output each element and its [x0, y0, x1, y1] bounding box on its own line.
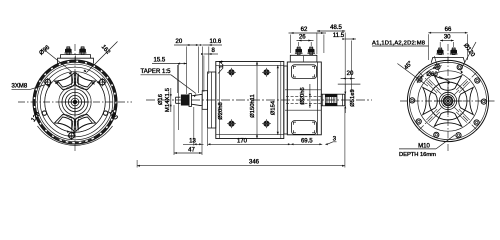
- left view top slot ribs: [72, 74, 79, 86]
- dim 346: [137, 165, 345, 167]
- svg-text:Ø16: Ø16: [158, 94, 164, 105]
- right view brush circle dia60: [429, 82, 467, 120]
- svg-text:TAPER 1:5: TAPER 1:5: [141, 69, 172, 75]
- dim 11.5: [345, 38, 356, 40]
- svg-text:26: 26: [299, 35, 306, 41]
- side view stator body: [216, 62, 284, 139]
- side view front housing plate: [208, 72, 216, 128]
- dim 62: [289, 32, 327, 34]
- svg-text:170: 170: [237, 139, 248, 145]
- 45deg radial extension lines: [434, 56, 439, 72]
- side view box tick: [303, 56, 305, 62]
- housing inner wall line: [317, 62, 319, 135]
- side view shaft washer: [189, 94, 191, 107]
- dim 48.5: [317, 30, 345, 32]
- side view body center line / dia150h11 dim: [256, 62, 258, 139]
- dia51e9 dim line: [344, 84, 346, 113]
- side view stub end line: [342, 94, 344, 106]
- dia20h6 dim line: [309, 84, 311, 108]
- side view rear housing window top: [292, 65, 317, 79]
- window corner tabs: [293, 66, 314, 133]
- side view rear terminal box: [290, 55, 317, 62]
- svg-text:Ø150h11: Ø150h11: [250, 94, 256, 117]
- dia16 dim line: [170, 88, 172, 112]
- dim 69.5: [291, 143, 323, 145]
- side view rear shaft stub: [321, 94, 344, 106]
- left view vent cutout lower-right: [76, 115, 96, 132]
- top-left dim extension lines: [177, 47, 209, 95]
- right view outer circle: [407, 60, 488, 141]
- left view terminal box base: [58, 58, 94, 63]
- left view wing tail marks: [55, 81, 59, 84]
- dim 26: [297, 40, 314, 42]
- 45deg arc: [417, 66, 442, 83]
- left view rim inner circle: [35, 62, 114, 141]
- right view spoke arm inner lines: [426, 79, 469, 122]
- left view vent cutout upper-left: [55, 73, 75, 90]
- svg-text:1.4: 1.4: [219, 60, 225, 69]
- side view terminal stud B: [309, 46, 313, 48]
- left view outer housing circle: [33, 60, 117, 144]
- dim 20 rear: [341, 78, 355, 80]
- dim 66 right view: [428, 32, 467, 34]
- left view vent cutout lower-left: [55, 115, 75, 132]
- right view rim circle: [409, 62, 486, 139]
- svg-text:Ø60: Ø60: [426, 72, 438, 78]
- left view M8 hole bottom: [69, 133, 75, 139]
- side view tie bolt bottom-right: [263, 121, 269, 127]
- side view shaft nut: [181, 95, 189, 105]
- svg-text:69.5: 69.5: [301, 139, 313, 145]
- right view plate tick: [447, 57, 449, 62]
- left view vent boundary circles: [45, 72, 106, 133]
- left view bottom slot ribs: [72, 119, 79, 131]
- bottom extension lines: [137, 105, 345, 168]
- svg-text:3XM8: 3XM8: [12, 84, 28, 90]
- side view bore step lines: [285, 90, 321, 110]
- dim 30 right view: [440, 40, 454, 42]
- svg-text:11.5: 11.5: [333, 33, 345, 39]
- svg-text:66: 66: [445, 27, 452, 33]
- left view hub cross: [61, 101, 89, 103]
- svg-text:20: 20: [347, 71, 354, 77]
- left view hub circles: [62, 89, 88, 115]
- svg-text:62: 62: [301, 27, 308, 33]
- left view 120deg dimension arc left: [45, 84, 72, 132]
- side view shaft thread stub: [176, 97, 181, 103]
- side view rear flange band: [284, 66, 288, 134]
- side view tie bolt bottom-left: [228, 121, 234, 127]
- left view flange arc: [38, 126, 113, 145]
- left view bolt ring circles: [37, 64, 113, 140]
- rear horizontal ref line: [338, 83, 361, 85]
- side view tie bolt top-right: [263, 69, 269, 75]
- svg-text:20: 20: [176, 39, 183, 45]
- svg-text:346: 346: [249, 160, 260, 166]
- svg-text:DEPTH 16mm: DEPTH 16mm: [399, 152, 436, 158]
- svg-text:48.5: 48.5: [330, 25, 342, 31]
- svg-text:M14X1.5: M14X1.5: [165, 88, 171, 112]
- left view 162 leader: [87, 42, 118, 73]
- left view vent cutout upper-right: [76, 73, 96, 90]
- left view arc arrowhead: [72, 131, 75, 133]
- side view tie bolt top-left: [228, 69, 234, 75]
- right view hub circles: [439, 92, 456, 109]
- left view terminal stud left: [66, 46, 70, 48]
- left view box center tick: [75, 56, 77, 63]
- dim 10.6 top: [202, 44, 222, 46]
- left view shaft center dot: [73, 100, 77, 104]
- svg-text:Ø154: Ø154: [271, 100, 277, 115]
- side view rear housing window bottom: [292, 121, 317, 135]
- dim 8: [204, 53, 218, 55]
- left view terminal stud right: [81, 46, 85, 48]
- side view body inner lines: [219, 62, 221, 139]
- side view stub collar lines: [322, 94, 324, 106]
- svg-text:Ø51e9: Ø51e9: [350, 89, 356, 106]
- rear top extension lines: [317, 33, 351, 93]
- right view spoke boundary circle: [418, 71, 478, 131]
- dim 3: [327, 142, 337, 145]
- side view hidden bore lines: [286, 97, 321, 104]
- dia16 extension line: [178, 63, 180, 130]
- svg-text:Ø20h8: Ø20h8: [218, 102, 224, 119]
- left view 120deg dimension arc right: [72, 84, 105, 132]
- side view stub spline section: [325, 94, 337, 97]
- left view arc arrowhead: [97, 81, 100, 84]
- right view stud right: [452, 47, 456, 49]
- left view 3XM8 leader: [12, 88, 31, 90]
- right view stud left: [438, 47, 442, 49]
- left view dia96 leader: [44, 50, 72, 73]
- dim 47: [174, 152, 202, 154]
- right view hub cross: [434, 100, 462, 102]
- left view small hole lower-right: [103, 111, 107, 115]
- left view terminal box top: [61, 55, 91, 59]
- front plate inner line: [211, 72, 213, 128]
- right view centerlines: [400, 44, 496, 153]
- left view arc arrowhead: [48, 84, 51, 87]
- svg-text:A1,1D1,A2,2D2:M8: A1,1D1,A2,2D2:M8: [372, 40, 425, 46]
- dia154 dim line: [277, 65, 279, 134]
- right view M10 bolt holes: [410, 64, 487, 138]
- svg-text:15.5: 15.5: [154, 58, 166, 64]
- left end view centerlines: [18, 44, 132, 153]
- side view terminal stud A: [297, 46, 301, 48]
- left view arc arrowhead: [67, 130, 70, 132]
- svg-text:Ø20h6: Ø20h6: [300, 87, 306, 104]
- side view rear housing: [287, 62, 321, 135]
- right view top plate: [431, 57, 465, 62]
- side view tapered shaft: [191, 94, 202, 106]
- left view knurled rim band: [34, 61, 116, 138]
- side view shaft centerline: [146, 99, 372, 101]
- svg-text:47: 47: [188, 147, 195, 153]
- svg-text:10.6: 10.6: [210, 39, 222, 45]
- left view M8 hole upper-left: [45, 79, 51, 85]
- dim 15.5: [152, 63, 187, 65]
- side view bearing boss: [202, 91, 207, 110]
- left view M8 hole upper-right: [99, 79, 105, 85]
- dim 13: [183, 143, 204, 145]
- dim 20 top: [174, 44, 199, 46]
- svg-text:13: 13: [189, 139, 196, 145]
- left view small hole lower-left: [42, 111, 46, 115]
- svg-text:M10: M10: [418, 143, 430, 149]
- right view spoke openings: [423, 76, 474, 127]
- dim 170: [208, 143, 291, 145]
- right view hub hatched ring: [444, 97, 453, 106]
- svg-text:30: 30: [444, 35, 451, 41]
